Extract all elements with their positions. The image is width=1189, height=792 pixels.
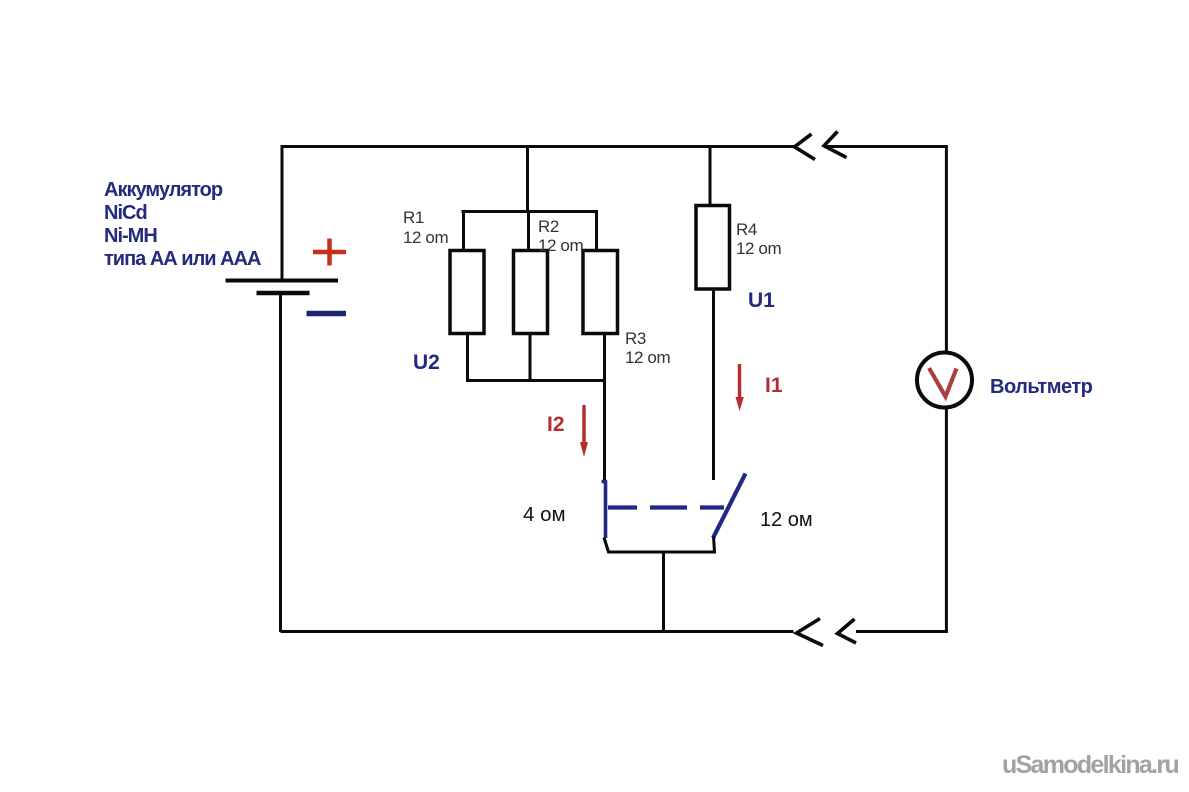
- watermark uSamodelkina.ru: [1002, 751, 1178, 780]
- wire: top bus right segment and right drop to voltmeter: [824, 147, 946, 354]
- switch SW1 dashed travel line (blue): [608, 505, 724, 509]
- resistor R2 value label: [538, 217, 583, 256]
- switch SW1 body outline: [604, 537, 715, 553]
- current arrow I2: [582, 405, 585, 444]
- switch SW1 lever (blue): [713, 474, 746, 539]
- wire: battery negative terminal down to bottom-left corner: [279, 292, 282, 632]
- arrowhead chevron 2 on top wire: [824, 132, 847, 158]
- wire: R3 bottom stub continuing down to switch left contact: [603, 333, 606, 481]
- wire: center drop from top bus to parallel resistor bank: [526, 147, 529, 212]
- wire: R3 top stub: [595, 211, 598, 251]
- wire: R4 top stub from top bus: [709, 147, 712, 206]
- resistor R1 body: [450, 251, 484, 334]
- resistor R3 body: [583, 251, 618, 334]
- switch position label 4 om: [523, 503, 566, 527]
- arrowhead chevron 1 on bottom wire: [797, 619, 824, 646]
- wire: top bus left segment: [281, 145, 795, 148]
- resistor R2 body: [514, 251, 548, 334]
- battery B1 long plate (+): [226, 279, 339, 283]
- current label I1: [765, 374, 783, 398]
- node label U1: [748, 289, 775, 313]
- wire: bottom bus left segment: [281, 630, 794, 633]
- current arrow I1: [738, 364, 741, 399]
- wire: battery positive terminal up to top-left corner: [281, 148, 284, 281]
- resistor R3 value label: [625, 329, 670, 368]
- wire: R2 top stub: [527, 211, 530, 251]
- switch SW1 left contact (blue): [602, 481, 608, 539]
- voltmeter label: [990, 376, 1092, 399]
- wire: R2 bottom stub: [529, 333, 532, 381]
- battery polarity minus sign: [307, 311, 347, 317]
- battery B1 short plate (-): [257, 291, 310, 296]
- wire: R1 top stub: [462, 211, 465, 251]
- current arrow I2 head: [580, 442, 588, 457]
- arrowhead chevron 2 on bottom wire: [838, 619, 857, 643]
- resistor R4 body: [696, 206, 730, 290]
- resistor R4 value label: [736, 220, 781, 259]
- battery polarity plus sign: [313, 239, 346, 266]
- node label U2: [413, 351, 440, 375]
- voltmeter V1 circle: [917, 353, 972, 408]
- switch position label 12 om: [760, 509, 813, 532]
- battery label text: [104, 179, 260, 271]
- wire: switch common down to bottom bus junction: [662, 552, 665, 631]
- wire: resistor bank top bus: [462, 210, 599, 213]
- current label I2: [547, 413, 565, 437]
- voltmeter V1 red V mark: [929, 368, 957, 397]
- wire: voltmeter bottom down to bottom-right corner and bottom bus right segment: [856, 408, 948, 632]
- current arrow I1 head: [736, 397, 744, 411]
- arrowhead chevron 1 on top wire: [795, 134, 816, 160]
- wire: R4 bottom down to switch right contact: [712, 289, 715, 481]
- wire: R1 bottom stub: [466, 333, 469, 381]
- resistor R1 value label: [403, 208, 448, 247]
- wire: resistor bank bottom bus: [466, 379, 606, 382]
